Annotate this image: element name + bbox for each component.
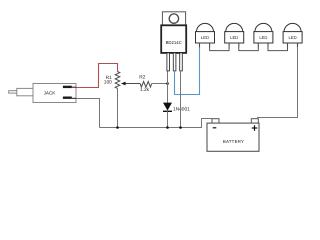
svg-text:BATTERY: BATTERY <box>223 139 244 144</box>
label + (battery positive) <box>252 127 258 129</box>
diode D1 <box>163 103 172 111</box>
svg-text:LED: LED <box>259 35 267 40</box>
LED4 legs <box>287 43 289 47</box>
LED3 legs <box>257 43 259 47</box>
svg-text:LED: LED <box>230 35 238 40</box>
junction: base node <box>166 82 169 85</box>
transistor Q1 pin 2 (collector) <box>173 53 176 71</box>
transistor Q1 pin 1 (base) <box>167 53 170 71</box>
wire: R2 to base node <box>152 83 168 85</box>
svg-text:LED: LED <box>289 35 297 40</box>
LED2 <box>225 23 244 43</box>
svg-text:100: 100 <box>104 79 112 85</box>
transistor Q1 body <box>161 25 186 53</box>
wire: bottom rail <box>100 119 213 128</box>
wire: LED2 to LED3 <box>239 47 258 51</box>
transistor Q1 mounting hole <box>169 14 178 23</box>
transistor Q1 (TO-220 tab) <box>162 12 185 25</box>
transistor Q1 pin 3 (emitter) <box>180 53 183 71</box>
svg-text:LED: LED <box>201 35 209 40</box>
wire: emitter to rail <box>180 71 182 128</box>
potentiometer R1 (body zigzag) <box>115 72 120 89</box>
wire: collector to LED1 cathode (blue) <box>175 47 200 95</box>
LED1 legs <box>199 43 201 47</box>
wire: jack tip contact to R1 top (red) <box>76 64 118 88</box>
wire: LED4 anode to battery + <box>257 47 298 118</box>
potentiometer R1 wiper arrow <box>125 83 140 85</box>
battery BT1 terminals <box>212 119 219 123</box>
LED1 <box>196 23 215 43</box>
svg-text:BD214C: BD214C <box>166 40 182 45</box>
LED2 legs <box>228 43 230 47</box>
resistor R2 <box>140 82 151 88</box>
wire: base node column (leg to diode) <box>167 71 169 103</box>
svg-text:JACK: JACK <box>44 91 57 96</box>
svg-text:1N4001: 1N4001 <box>173 106 190 112</box>
LED4 <box>283 23 302 43</box>
wire: LED1 to LED2 <box>210 47 230 51</box>
junction: diode / rail <box>166 126 169 129</box>
wire: jack sleeve contact to bottom rail <box>76 99 100 128</box>
wire: LED3 to LED4 <box>268 47 288 51</box>
jack J1 <box>9 84 77 103</box>
svg-text:1.2k: 1.2k <box>140 87 150 93</box>
wire: R1 bottom to rail <box>117 89 119 128</box>
LED3 <box>254 23 273 43</box>
junction: R1 / rail <box>116 126 119 129</box>
junction: emitter / rail <box>179 126 182 129</box>
label - (battery negative) <box>213 127 217 129</box>
svg-text:R2: R2 <box>139 74 145 80</box>
battery BT1 body <box>207 123 259 151</box>
wire: diode to rail <box>167 111 169 127</box>
